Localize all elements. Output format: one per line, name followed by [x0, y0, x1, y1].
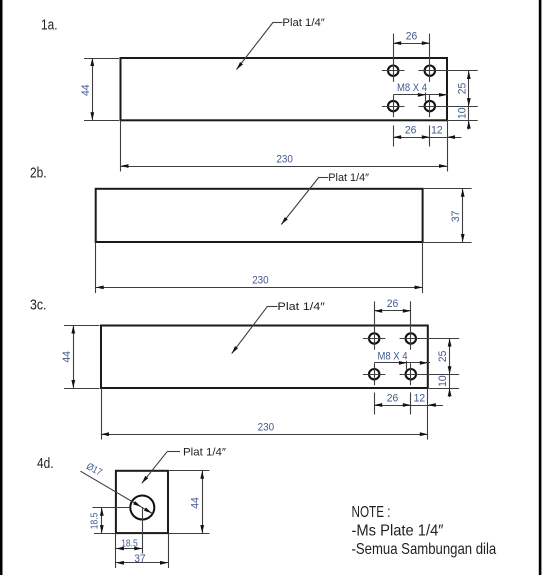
svg-text:44: 44 — [190, 497, 202, 509]
svg-text:37: 37 — [134, 553, 146, 565]
svg-text:Plat 1/4″: Plat 1/4″ — [183, 447, 226, 459]
svg-text:10: 10 — [456, 108, 468, 120]
svg-text:Plat 1/4″: Plat 1/4″ — [328, 172, 369, 184]
svg-text:26: 26 — [405, 124, 417, 136]
svg-text:-Ms Plate 1/4″: -Ms Plate 1/4″ — [352, 523, 444, 540]
svg-text:12: 12 — [431, 124, 443, 136]
svg-text:18.5: 18.5 — [89, 513, 101, 530]
svg-text:Plat 1/4″: Plat 1/4″ — [277, 301, 325, 313]
svg-text:26: 26 — [387, 298, 399, 310]
svg-text:3c.: 3c. — [30, 297, 47, 314]
svg-text:25: 25 — [456, 83, 468, 95]
svg-text:26: 26 — [406, 30, 418, 42]
svg-text:230: 230 — [252, 275, 269, 287]
svg-text:2b.: 2b. — [30, 165, 47, 182]
svg-text:44: 44 — [80, 85, 92, 97]
svg-text:M8 X 4: M8 X 4 — [378, 350, 408, 362]
svg-text:Plat 1/4″: Plat 1/4″ — [282, 17, 325, 29]
svg-text:230: 230 — [258, 422, 275, 434]
svg-text:44: 44 — [61, 351, 73, 363]
svg-text:M8 X 4: M8 X 4 — [397, 82, 427, 94]
svg-text:1a.: 1a. — [41, 16, 58, 33]
svg-text:10: 10 — [437, 375, 449, 387]
svg-text:12: 12 — [414, 392, 426, 404]
svg-text:37: 37 — [450, 211, 462, 223]
svg-text:25: 25 — [437, 351, 449, 363]
svg-text:26: 26 — [387, 392, 399, 404]
svg-text:18.5: 18.5 — [121, 537, 138, 549]
svg-text:230: 230 — [276, 154, 293, 166]
svg-text:-Semua Sambungan dila: -Semua Sambungan dila — [352, 541, 497, 558]
svg-text:4d.: 4d. — [37, 455, 54, 472]
svg-text:NOTE :: NOTE : — [352, 504, 391, 521]
svg-text:Ø17: Ø17 — [84, 461, 104, 478]
